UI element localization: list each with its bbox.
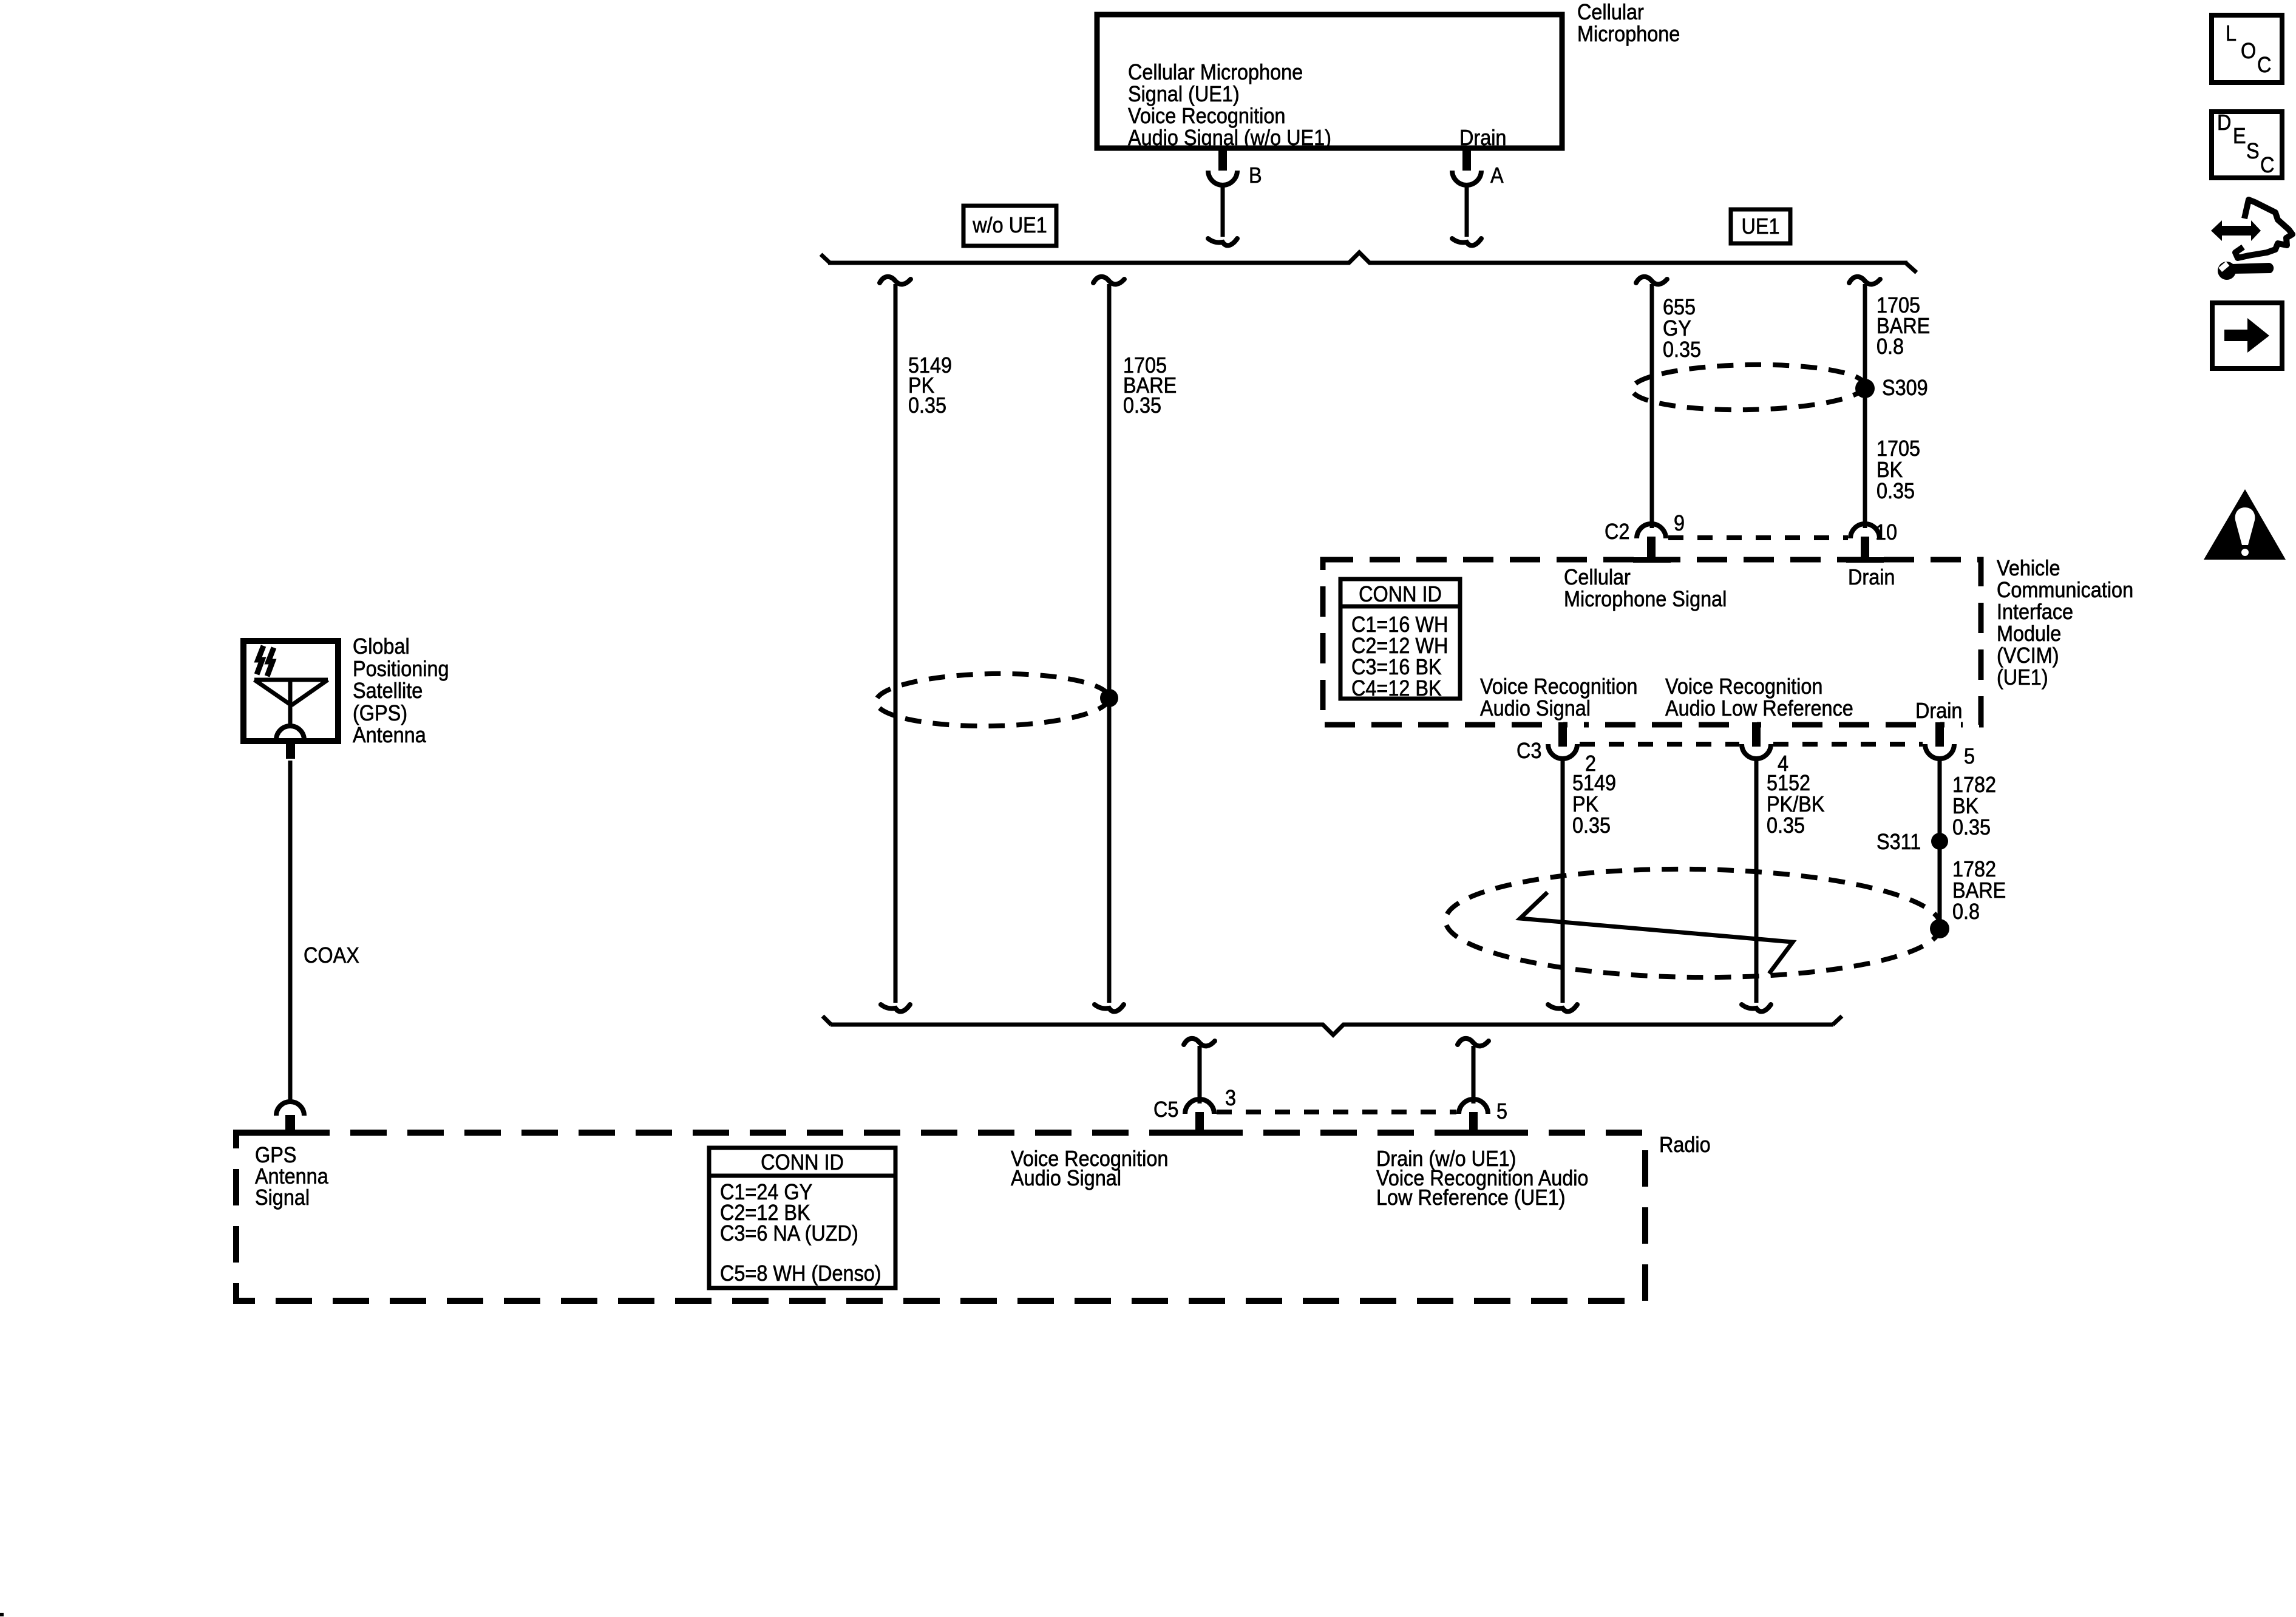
label: Voice Recognition Audio Signal (radio)	[1011, 1149, 1168, 1188]
label: splice S309	[1882, 377, 1928, 398]
connector C3 pin 5 cup	[1925, 744, 1954, 759]
GPS antenna connector dome	[276, 726, 304, 740]
label: Voice Recognition Audio Low Reference (VCIM)	[1665, 676, 1853, 719]
w/o UE1 option box	[963, 206, 1056, 246]
label: wire 1782 BK 0.35	[1952, 774, 1996, 838]
label: Drain (VCIM bottom)	[1915, 700, 1962, 721]
label: Drain (VCIM top)	[1848, 566, 1895, 588]
C3 dashed link pin2-pin4	[1580, 742, 1739, 747]
large shield ellipse around C3 wires	[1445, 866, 1941, 980]
wire 5149 PK 0.35 (C3-2 to radio)	[1561, 759, 1565, 1003]
label: Vehicle Communication Interface Module (VCIM) (UE1)	[1997, 557, 2133, 688]
label: pin B	[1249, 164, 1262, 186]
label: cellular microphone internal pin functions	[1128, 61, 1331, 149]
wire end hook below pin B	[1208, 239, 1237, 245]
label: wire 5152 PK/BK 0.35	[1767, 772, 1824, 836]
wire 1705 BARE 0.8	[1849, 277, 1880, 284]
connector C5 pin 3	[1185, 1099, 1214, 1114]
label: Cellular Microphone (component name)	[1577, 1, 1680, 45]
label: Cellular Microphone Signal (VCIM)	[1564, 566, 1727, 610]
shield ellipse around w/o UE1 pair	[875, 672, 1109, 728]
label: pin 5 (C5)	[1496, 1100, 1507, 1122]
C3 dashed link pin4-pin5	[1773, 742, 1923, 747]
label: splice S311	[1877, 831, 1921, 852]
wire 1705 BK 0.35	[1863, 388, 1867, 528]
LOC icon box	[2212, 15, 2282, 83]
label: VCIM conn id table	[1347, 583, 1454, 605]
LOC icon letters	[2226, 22, 2237, 44]
label: Radio	[1659, 1134, 1711, 1155]
connector C3 pin 4 cup	[1742, 744, 1771, 759]
GPS antenna pin	[286, 741, 295, 759]
shield ellipse at S309	[1631, 363, 1865, 412]
label: connector C5	[1153, 1099, 1178, 1120]
label: pin 2	[1585, 753, 1596, 774]
label: pin A	[1490, 164, 1504, 186]
label: pin 3	[1225, 1087, 1236, 1108]
GPS antenna symbol	[254, 680, 328, 727]
VCIM CONN ID table	[1339, 579, 1462, 699]
label: Drain (mic box)	[1459, 127, 1506, 148]
next-page arrow icon box	[2212, 303, 2282, 368]
UE1 option box	[1731, 209, 1790, 243]
VCIM dashed component box	[1323, 560, 1981, 725]
wire 5152 PK/BK 0.35 (C3-4 to radio)	[1754, 759, 1759, 1003]
diagnostic car-and-wrench icon	[2211, 200, 2292, 280]
wire 1705 BARE 0.35 (w/o UE1 branch)	[1093, 277, 1124, 284]
C5 pin-to-pin dashed link	[1217, 1110, 1456, 1114]
label: Radio conn id table	[718, 1151, 886, 1173]
lightning bolt 2	[267, 648, 274, 676]
warning triangle icon	[2204, 489, 2286, 560]
wire 5149 PK 0.35 (w/o UE1 branch)	[880, 277, 911, 284]
page corner mark	[0, 1613, 4, 1616]
label: connector C3	[1517, 740, 1541, 761]
C2 pin-to-pin dashed link	[1668, 535, 1848, 540]
T-junction dashes at C2 pins on VCIM top edge	[1633, 557, 1671, 563]
label: pin 4	[1778, 753, 1788, 774]
DESC icon letters	[2217, 112, 2231, 133]
splice S311 dot	[1931, 833, 1948, 850]
pin A of cellular microphone connector	[1452, 151, 1481, 237]
lightning bolt 1	[257, 646, 263, 674]
label: pin 10	[1875, 521, 1897, 543]
label: GPS Antenna Signal	[255, 1144, 328, 1208]
label: wire 1705 BARE 0.35	[1123, 355, 1177, 415]
wire stub to radio C5 pin 3	[1184, 1039, 1215, 1046]
DESC icon box	[2212, 112, 2282, 178]
wire stub to radio C5 pin 5	[1458, 1039, 1489, 1046]
label: pin 9	[1674, 512, 1685, 534]
label: wire 1705 BK 0.35	[1877, 438, 1920, 501]
label: COAX	[304, 944, 359, 966]
Radio dashed component box	[236, 1133, 1645, 1301]
white gaps on VCIM lower edge at C3 pins	[1547, 721, 1563, 729]
Radio CONN ID table	[707, 1148, 897, 1288]
connector C5 pin 5	[1459, 1099, 1488, 1114]
label: Global Positioning Satellite (GPS) Antenna	[353, 636, 449, 747]
radio GPS connector dome	[276, 1102, 304, 1116]
label: w/o UE1	[968, 214, 1052, 236]
label: Drain (w/o UE1) Voice Recognition Audio Low Reference (UE1)	[1376, 1149, 1588, 1207]
Cellular Microphone component box	[1097, 15, 1562, 148]
label: Voice Recognition Audio Signal (VCIM)	[1480, 676, 1637, 719]
wire 655 GY 0.35	[1636, 277, 1667, 284]
drain wire 1782 BARE 0.8	[1938, 841, 1942, 929]
label: wire 5149 PK 0.35	[908, 355, 952, 415]
pin B of cellular microphone connector	[1208, 151, 1237, 237]
label: wire 1705 BARE 0.8	[1877, 295, 1930, 357]
GPS antenna component box	[243, 641, 338, 741]
shield termination dot	[1930, 919, 1949, 938]
label: wire 5149 PK 0.35 (lower)	[1572, 772, 1616, 836]
arrow glyph	[2224, 318, 2269, 353]
wire end hook below pin A	[1452, 239, 1481, 245]
connector C3 pin 2 cup	[1548, 744, 1577, 759]
label: wire 655 GY 0.35	[1663, 296, 1701, 360]
junction dot on 1705 BARE wire	[1100, 689, 1118, 707]
top harness bus brace	[821, 253, 1917, 273]
T-junction dashes at radio pins on top edge	[1181, 1130, 1218, 1136]
drain wire 1782 BK 0.35	[1938, 759, 1942, 841]
connector C2 pin 10	[1850, 524, 1880, 538]
label: wire 1782 BARE 0.8	[1952, 858, 2006, 922]
bottom harness bus brace	[823, 1016, 1842, 1035]
label: pin 5 (C3)	[1964, 745, 1975, 767]
splice S309 dot	[1855, 379, 1875, 398]
label: UE1	[1734, 215, 1787, 237]
connector C2 pin 9	[1637, 524, 1666, 538]
twisted pair zigzag symbol	[1520, 892, 1793, 974]
COAX wire	[288, 761, 293, 1102]
label: connector C2	[1605, 521, 1629, 542]
